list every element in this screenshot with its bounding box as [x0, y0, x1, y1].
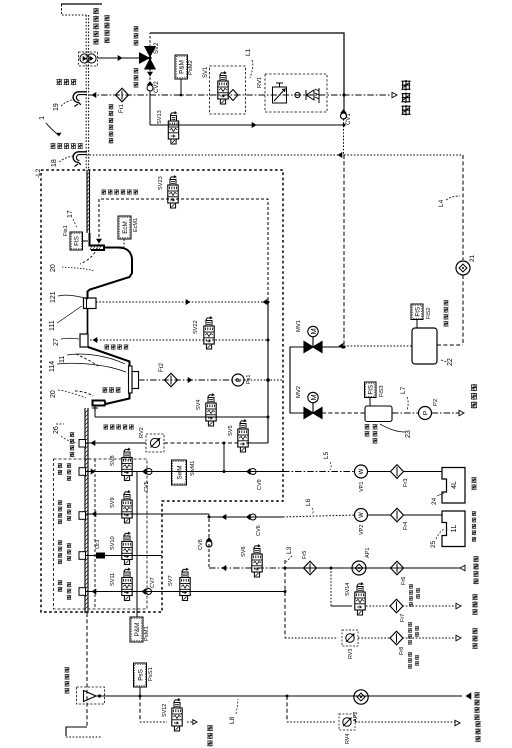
svg-text:27: 27	[53, 338, 60, 346]
check valve CV7	[146, 589, 152, 595]
sensor box Fts1 item 17	[70, 232, 83, 250]
label haisui-guchi (col)	[471, 384, 477, 391]
check valve CV1	[341, 113, 347, 119]
label taiki-e SV12 (col)	[207, 725, 213, 731]
port arrow air intake	[460, 565, 465, 571]
tub wall mid	[87, 309, 89, 335]
wire bottom air line y696	[96, 695, 462, 697]
filter Fr7	[390, 599, 403, 613]
svg-text:P&M: P&M	[179, 60, 186, 74]
connector square row 1	[79, 468, 86, 476]
wire P2 to drain port	[432, 412, 462, 414]
svg-text:SV1: SV1	[203, 66, 209, 78]
wire SV10 line y555.5	[86, 555, 163, 557]
wire tank to MV junction	[344, 345, 412, 347]
nozzle 27 flange	[80, 334, 88, 347]
svg-text:CV9: CV9	[257, 479, 263, 490]
label kyusui-guchi (fake kanji row)	[56, 79, 62, 85]
label taiki-e 2 (col)	[472, 628, 477, 634]
label senzai tank (2 cols)	[364, 424, 369, 430]
svg-text:25: 25	[430, 540, 437, 548]
junction x224	[223, 470, 226, 473]
check valve CV9	[250, 469, 256, 475]
connector square row 2	[79, 512, 86, 520]
svg-text:24: 24	[431, 497, 438, 505]
wire x224 up to y443	[223, 443, 225, 472]
svg-text:P2: P2	[433, 399, 439, 406]
svg-text:M: M	[309, 394, 318, 400]
solenoid SV10	[122, 532, 132, 565]
tank 22	[412, 328, 437, 364]
svg-text:1: 1	[37, 116, 46, 120]
svg-text:20: 20	[50, 264, 57, 272]
svg-text:VP1: VP1	[359, 482, 365, 492]
label wash head 2 (row)	[103, 424, 108, 430]
wire line L6	[283, 515, 355, 517]
svg-text:SV22: SV22	[193, 320, 199, 334]
wire MV2 to tank 23	[322, 412, 365, 414]
tank 23	[365, 406, 392, 422]
svg-text:Fr5: Fr5	[302, 551, 308, 559]
pressure box PsM2	[175, 55, 188, 79]
svg-text:FtS: FtS	[368, 385, 375, 395]
svg-text:EcM: EcM	[122, 221, 129, 234]
svg-text:20: 20	[50, 390, 57, 398]
jet nozzle flange 114/11	[129, 366, 133, 393]
wire jet line y380 to Fr2 and Ps	[138, 379, 244, 381]
arrow to atmosphere SV12	[193, 720, 197, 725]
svg-text:CV8: CV8	[198, 539, 204, 550]
motor valve MV1	[304, 342, 313, 353]
filter box FtS2	[411, 304, 423, 320]
vacuum pump VP1	[355, 465, 368, 478]
pump P2	[419, 407, 432, 420]
filter box FtS3	[365, 382, 377, 398]
wire nozzle27 air line y340	[90, 339, 268, 341]
svg-text:Fr8: Fr8	[399, 647, 405, 655]
wire tub drain to bottom	[86, 613, 88, 727]
svg-text:1L: 1L	[451, 525, 458, 533]
wire SwM line y471.5	[86, 471, 284, 473]
svg-text:FtS3: FtS3	[379, 385, 385, 397]
check valve CV6	[250, 514, 256, 520]
wire SV7 line to L3	[190, 591, 285, 593]
svg-text:RV3: RV3	[348, 649, 354, 659]
svg-text:MV2: MV2	[296, 386, 302, 398]
wire main vertical supply pipe	[85, 15, 87, 170]
svg-text:Or3: Or3	[95, 540, 101, 549]
svg-text:Fr2: Fr2	[159, 362, 165, 372]
wire CV6 segment	[209, 516, 283, 518]
svg-text:L3: L3	[286, 546, 293, 554]
svg-text:PsS1: PsS1	[148, 667, 154, 681]
svg-text:L7: L7	[400, 386, 407, 394]
svg-text:26: 26	[53, 426, 60, 434]
connector square row 3	[79, 552, 86, 560]
coupler labels g2	[58, 500, 63, 505]
label chozou tank (col)	[443, 300, 448, 306]
junction main line x344	[342, 93, 345, 96]
check valve CV8	[206, 541, 212, 547]
svg-text:SwM1: SwM1	[190, 461, 196, 476]
svg-text:SV4: SV4	[196, 399, 202, 410]
wire MV1 left and down to MV2	[290, 347, 304, 413]
label taiki-e 1 (col)	[472, 594, 477, 600]
solenoid SV14	[355, 583, 365, 616]
svg-text:PsM1: PsM1	[144, 626, 150, 641]
solenoid SV12	[172, 699, 182, 732]
label taiki-yori bottom (col)	[474, 692, 479, 698]
svg-text:Fr6: Fr6	[401, 577, 407, 585]
svg-text:L5: L5	[323, 451, 330, 459]
svg-text:11: 11	[59, 356, 66, 363]
svg-text:SwM: SwM	[176, 466, 183, 480]
svg-text:SV14: SV14	[345, 583, 351, 596]
filter Fr6	[366, 567, 391, 569]
svg-text:121: 121	[50, 291, 57, 303]
wire main water line L1	[89, 94, 394, 96]
svg-text:17: 17	[67, 210, 74, 218]
label silencer Fr6 (2 cols)	[409, 584, 413, 589]
wire return line y443	[86, 442, 146, 444]
svg-text:21: 21	[469, 254, 476, 262]
svg-text:-L2: -L2	[35, 168, 42, 178]
vertical header x268	[267, 302, 269, 443]
wire dashed pipe to wash heads	[99, 199, 268, 302]
wire SV13 line	[150, 124, 344, 126]
connector square row 4	[79, 588, 86, 596]
relief valve RV2	[146, 434, 164, 452]
coupler labels g3	[58, 540, 63, 545]
solenoid SV7	[180, 568, 190, 601]
wire pump to SV2	[98, 57, 142, 59]
label taiki-e bottom (col)	[475, 721, 480, 727]
tub left wall lower hatched	[84, 408, 86, 613]
label kyusui-moto (col)	[401, 80, 410, 91]
wire RV4 branch	[286, 696, 288, 722]
filter Fr8	[358, 637, 391, 639]
wire PsM2 to main line	[180, 79, 182, 95]
pressure regulator	[273, 87, 287, 103]
label haisui-kenchi (col)	[64, 667, 69, 673]
pump unit at top	[79, 52, 98, 66]
wire SV12 branch	[139, 696, 141, 722]
wire down to CV1	[343, 95, 345, 112]
svg-text:CV5: CV5	[144, 481, 150, 492]
pressure box PsS1	[134, 663, 147, 687]
tank 4L bath	[442, 468, 465, 504]
check valve in regulator box	[295, 92, 300, 97]
label sensyo-2	[133, 68, 138, 74]
svg-text:SV2: SV2	[154, 42, 160, 54]
wire SV2 down to CV2	[149, 65, 151, 85]
solenoid SV6	[252, 545, 262, 578]
wire SV11 line y591.5	[86, 591, 286, 593]
svg-text:18: 18	[51, 159, 58, 167]
label taiki-yori (col)	[473, 556, 478, 562]
tub lower-right bulge	[88, 347, 130, 366]
wire SV2 up and across top	[149, 33, 151, 47]
wire line L5 to bath tank	[283, 471, 355, 473]
solenoid SV8	[122, 448, 132, 481]
relief valve RV3	[342, 630, 358, 646]
label silencer Fr7 (2 cols)	[408, 622, 412, 627]
port arrow to water supply	[392, 92, 397, 98]
air pump AP2	[354, 690, 368, 704]
filter Fr3	[391, 465, 404, 479]
svg-text:19: 19	[53, 103, 60, 111]
svg-text:L6: L6	[305, 498, 312, 506]
wire L3 vertical	[284, 560, 286, 638]
port arrow air intake bottom	[466, 693, 471, 699]
filter Fr1	[116, 88, 129, 102]
wire pump to tank 22	[462, 275, 464, 345]
svg-text:AP1: AP1	[365, 548, 371, 558]
svg-text:SV10: SV10	[110, 536, 116, 550]
svg-text:SV9: SV9	[110, 497, 116, 508]
svg-text:SV13: SV13	[157, 110, 163, 124]
svg-text:PsS: PsS	[137, 669, 144, 681]
label funsha-kuki (row)	[104, 344, 109, 350]
label yokusou (col)	[471, 477, 476, 483]
svg-text:EcM1: EcM1	[133, 218, 139, 232]
svg-text:L4: L4	[438, 199, 445, 207]
pipe stub heat-source connection	[61, 3, 102, 5]
svg-text:Fts1: Fts1	[63, 225, 69, 236]
svg-text:CV7: CV7	[150, 577, 156, 588]
unit enclosure dotted box L2	[41, 170, 283, 612]
loop L4 wire	[344, 154, 463, 156]
coupler labels g4	[58, 580, 63, 585]
svg-text:4L: 4L	[451, 481, 458, 489]
svg-text:22: 22	[447, 358, 454, 366]
svg-text:Fr3: Fr3	[403, 479, 409, 487]
svg-text:SV5: SV5	[228, 425, 234, 436]
filter Fr2	[165, 373, 178, 387]
three-way valve SV2	[140, 53, 150, 63]
svg-text:CV6: CV6	[256, 525, 262, 536]
label funsha-guchi (row)	[102, 387, 107, 393]
tub drain tee mark	[92, 406, 98, 412]
svg-text:CV1: CV1	[346, 113, 352, 125]
pump 21	[456, 261, 470, 275]
svg-text:CV2: CV2	[154, 81, 160, 93]
tub bottom outline	[93, 393, 130, 406]
relief valve RV4	[339, 714, 355, 730]
svg-text:L8: L8	[229, 716, 236, 724]
solenoid SV11	[122, 568, 132, 601]
coupler labels g1 (2 cols)	[58, 463, 63, 468]
label wash head 1 (row)	[101, 189, 106, 195]
wire nozzle121 line y302	[96, 301, 268, 303]
svg-text:W: W	[359, 512, 365, 518]
switch box SwM1	[172, 460, 187, 485]
label alcohol (col)	[472, 511, 477, 516]
wire RV3 branch	[285, 637, 338, 639]
check valve CV2	[147, 85, 153, 91]
pressure gauge Ps1	[232, 374, 244, 386]
tank 1L alcohol	[442, 511, 465, 547]
svg-text:FtS: FtS	[74, 236, 81, 246]
port arrow exhaust 1	[456, 603, 461, 609]
solenoid valve SV23	[168, 176, 178, 209]
tub wall hatched top	[86, 170, 88, 233]
vertical CV8 line x209	[208, 514, 210, 568]
trap 18 circulation port	[73, 152, 87, 165]
label mizu-filter (col)	[109, 104, 114, 110]
dashed water level arcs in tub	[80, 244, 99, 264]
svg-text:P: P	[422, 411, 429, 415]
wire circulation line y155	[86, 154, 344, 156]
orifice Or3	[96, 553, 105, 559]
port arrow exhaust bottom	[455, 720, 460, 726]
filter Fr5	[304, 561, 317, 575]
wire SV9 line y514	[86, 513, 210, 515]
wire SV14 branch	[330, 568, 332, 606]
wire air line y568	[209, 567, 283, 569]
wire L4 vertical from line155 to MV1	[343, 155, 345, 346]
svg-text:Fr4: Fr4	[403, 522, 409, 530]
label junkan-setsuzoku-guchi (row)	[50, 143, 55, 149]
label sensyo-1	[133, 26, 138, 32]
solenoid SV4	[206, 394, 216, 427]
svg-text:P: P	[235, 378, 242, 382]
svg-text:Ps1: Ps1	[246, 375, 252, 384]
motor valve MV2	[304, 408, 313, 419]
solenoid valve SV1 in dashed box	[210, 66, 246, 114]
svg-text:SV11: SV11	[110, 573, 116, 586]
svg-text:AP2: AP2	[353, 712, 359, 722]
regulator assembly dashed box	[265, 74, 327, 112]
svg-text:FtS: FtS	[414, 307, 421, 317]
label silencer Fr8 (2 cols)	[408, 652, 412, 657]
svg-text:111: 111	[49, 320, 56, 331]
svg-text:RV2: RV2	[139, 427, 145, 438]
solenoid SV9	[122, 491, 132, 524]
pressure box PsM1	[130, 617, 143, 642]
connector square 26	[79, 440, 86, 448]
check valve CV5	[146, 469, 152, 475]
filter Fr4	[391, 508, 404, 522]
svg-text:MV1: MV1	[296, 320, 302, 332]
svg-text:FtS2: FtS2	[426, 307, 432, 319]
label zennetsu-genki connection (fake kanji col)	[93, 8, 99, 14]
svg-text:SV12: SV12	[162, 704, 168, 717]
svg-text:RV1: RV1	[257, 77, 263, 88]
solenoid SV22	[204, 317, 214, 350]
svg-text:23: 23	[405, 430, 412, 438]
svg-text:PsM2: PsM2	[188, 60, 194, 75]
svg-text:SV7: SV7	[168, 575, 174, 586]
label return (col)	[70, 432, 75, 437]
svg-text:L1: L1	[245, 48, 252, 56]
drain sensor dashed box	[77, 687, 105, 704]
manifold to PsM1	[136, 472, 138, 618]
solenoid SV13	[168, 112, 178, 145]
svg-text:M: M	[309, 328, 318, 334]
svg-text:SV8: SV8	[110, 455, 116, 466]
svg-text:W: W	[359, 468, 365, 474]
svg-text:VP2: VP2	[359, 525, 365, 535]
vacuum pump VP2	[355, 509, 368, 522]
trap 19 water inlet	[73, 92, 87, 105]
wire SV4 drain line y417	[94, 411, 96, 417]
svg-text:SV6: SV6	[241, 546, 247, 557]
wire CV2 down to SV13 line	[149, 91, 151, 125]
coupler box dashed	[54, 459, 148, 609]
air pump AP1	[352, 561, 366, 575]
wire CV1 down to line155	[343, 119, 345, 155]
port arrow exhaust 2	[456, 635, 461, 641]
svg-text:SV23: SV23	[158, 176, 164, 190]
svg-text:Fr1: Fr1	[119, 103, 125, 113]
svg-text:P&M: P&M	[134, 623, 141, 637]
nozzle 121/111 flange	[84, 298, 97, 309]
solenoid SV5	[238, 420, 248, 453]
svg-text:RV4: RV4	[345, 734, 351, 744]
svg-text:Fr7: Fr7	[400, 614, 406, 622]
wire tank23 to pump P2	[392, 412, 418, 414]
svg-text:114: 114	[49, 361, 56, 372]
sensor box EcM1	[118, 216, 131, 239]
tub body outline	[88, 233, 133, 298]
